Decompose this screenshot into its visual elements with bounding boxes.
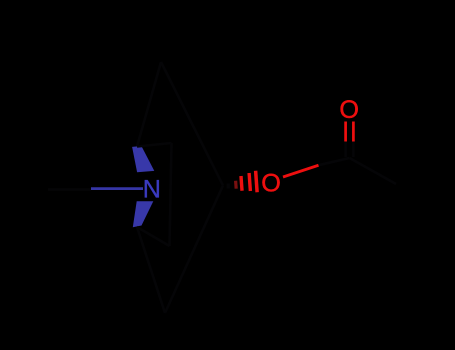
bond O-C1' carbon half bbox=[319, 158, 350, 165]
hash m1 bbox=[234, 181, 238, 189]
wedge N-C1 bbox=[132, 146, 154, 172]
hash m3 bbox=[247, 173, 252, 191]
bond C4-C5 bbox=[137, 227, 165, 313]
double bond C1'=O carbon halves bbox=[344, 141, 347, 157]
bond C7-C5 bridge bbox=[137, 227, 170, 246]
bond N-CH3 carbon half bbox=[48, 188, 91, 191]
bond C1-C6 bridge bbox=[137, 143, 172, 147]
double bond C1'=O oxygen halves bbox=[344, 122, 347, 142]
bond C1-C2 bbox=[137, 62, 161, 147]
bond C1'-CH3 acetyl bbox=[350, 158, 397, 184]
bond O-C1' oxygen half bbox=[283, 165, 319, 177]
svg-text:O: O bbox=[261, 170, 281, 198]
bond C2-C3 bbox=[161, 62, 223, 186]
hash m2 bbox=[239, 176, 243, 191]
svg-text:O: O bbox=[339, 96, 359, 124]
bond C3-C4 bbox=[165, 186, 223, 314]
bond C6-C7 bridge bbox=[170, 143, 172, 246]
hash mark m0 dark bbox=[227, 184, 230, 189]
svg-text:N: N bbox=[143, 176, 161, 204]
hashed wedge C3-O marks bbox=[233, 171, 258, 194]
bond N-CH3 nitrogen half bbox=[91, 187, 143, 190]
hash m4 bbox=[254, 171, 259, 193]
wedge N-C5 bbox=[133, 201, 154, 227]
